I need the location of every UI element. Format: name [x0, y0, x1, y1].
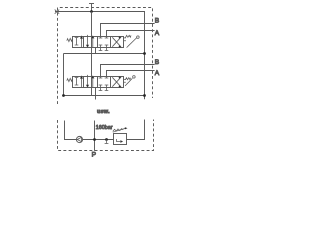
wire relief outlet: [127, 120, 145, 140]
wire port A1: [107, 31, 155, 37]
wire port B2: [101, 65, 155, 77]
svg-text:B: B: [155, 18, 160, 25]
relief valve RV body: [114, 134, 127, 145]
valve V2 body: [73, 77, 124, 88]
enclosure pump block dashed open top: [58, 120, 154, 151]
svg-text:A: A: [155, 70, 160, 77]
svg-text:usw.: usw.: [97, 109, 110, 115]
wire tank link under V2: [64, 95, 145, 97]
pilot actuator V1 right: [124, 35, 140, 47]
wire pressure line: [83, 139, 114, 141]
wire port B1: [101, 24, 155, 37]
valve V2 work position arrows: [86, 75, 94, 88]
wire tank stub bottom box: [65, 121, 77, 140]
valve V1 work position arrows: [86, 35, 94, 48]
relief valve spring: [113, 129, 123, 132]
valve V2 float position: [75, 76, 83, 88]
valve V1 float position: [75, 36, 83, 48]
wire tank link under V1: [64, 53, 145, 55]
node T junction: [90, 10, 93, 13]
plugged corner mark: [55, 10, 60, 14]
pilot actuator V2 right: [124, 76, 136, 86]
valve V1 blocked ports below: [99, 48, 109, 51]
gauge stub plugged: [105, 140, 109, 144]
spring V2 left: [67, 78, 73, 82]
enclosure valve block dashed open bottom: [58, 8, 153, 105]
wire port A2: [107, 71, 155, 77]
valve V1 crossed position: [112, 37, 121, 48]
valve V1 body: [73, 37, 124, 48]
relief valve internal arrow: [117, 139, 123, 143]
svg-text:A: A: [155, 30, 160, 37]
valve V2 neutral blocked: [99, 77, 109, 88]
wire main feed vertical: [91, 12, 93, 96]
svg-text:P: P: [92, 152, 97, 159]
node relief branch: [105, 138, 108, 141]
wire V2 second drop and stub: [95, 88, 97, 100]
port T symbol: [89, 4, 94, 12]
svg-text:160bar: 160bar: [96, 125, 113, 131]
wire left tank drop: [63, 54, 65, 96]
valve V2 crossed position: [112, 77, 121, 88]
wire V1 second drop: [95, 48, 97, 54]
node P branch: [93, 138, 96, 141]
check valve: [76, 136, 82, 142]
spring V1 left: [67, 38, 73, 42]
wire tank bus top: [55, 12, 145, 100]
valve V1 neutral blocked: [99, 37, 109, 48]
svg-text:B: B: [155, 59, 160, 66]
wire P riser: [94, 121, 96, 151]
relief valve adjust arrow: [113, 127, 128, 132]
valve V2 blocked ports below: [99, 88, 109, 91]
node left bus junction 2: [62, 94, 65, 97]
node right bus junction 1: [143, 52, 146, 55]
node right bus junction 2: [143, 94, 146, 97]
